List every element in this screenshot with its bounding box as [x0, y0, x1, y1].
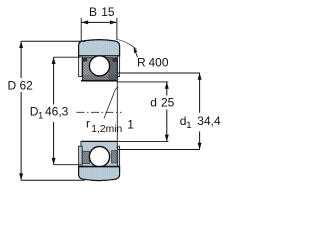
- inner ring band shading top section: [83, 75, 118, 82]
- svg-text:D: D: [8, 79, 17, 93]
- svg-text:1: 1: [127, 118, 134, 132]
- svg-text:d: d: [150, 96, 157, 110]
- svg-text:1: 1: [186, 120, 191, 131]
- dimension d1: dimension line with arrows: [199, 73, 201, 113]
- dimension D1: dimension line with arrows: [53, 57, 55, 104]
- dimension d: extension lines: [117, 81, 168, 83]
- bore edge line top section: [81, 80, 117, 82]
- shield lip right bottom section: [117, 146, 119, 167]
- svg-text:1,2min: 1,2min: [91, 124, 122, 135]
- svg-text:25: 25: [161, 96, 175, 110]
- outer ring ID line bottom section: [79, 166, 120, 168]
- centerline (axis): [77, 111, 122, 113]
- dimension D1: extension lines: [54, 56, 81, 58]
- R400 leader arrow: [134, 47, 138, 53]
- svg-text:46,3: 46,3: [45, 105, 69, 119]
- outer ring top section (crowned OD): [79, 40, 120, 56]
- inner ring bottom section: [81, 141, 117, 167]
- svg-text:r: r: [86, 117, 90, 131]
- shield lip left bottom section: [79, 146, 83, 167]
- svg-text:R: R: [137, 56, 146, 70]
- leader line r1,2min: [104, 87, 118, 119]
- outer ring ID line top section: [79, 55, 120, 57]
- inner ring face / d extension vertical line: [116, 58, 118, 164]
- svg-text:B: B: [89, 5, 97, 19]
- svg-text:62: 62: [20, 79, 34, 93]
- dimension d1: extension lines: [118, 72, 200, 74]
- cage flank right bottom section: [112, 151, 118, 163]
- svg-text:1: 1: [38, 111, 43, 122]
- inner ring face lines bottom section: [80, 141, 82, 167]
- dimension d: dimension line with arrows: [166, 82, 168, 96]
- inner ring + cage hatched block top section: [83, 58, 118, 81]
- dimension D: dimension line with arrows: [20, 41, 22, 78]
- cage cap right top: [113, 58, 118, 62]
- cage cap left top: [83, 58, 88, 62]
- shield lip left top section: [79, 56, 83, 77]
- R400 crown arc extension: [116, 39, 137, 49]
- cage darker right side top section: [109, 58, 118, 81]
- cage flank left bottom section: [82, 151, 89, 163]
- ball bottom section: [89, 147, 109, 167]
- dimension D: extension lines: [21, 40, 85, 42]
- ball top section: [89, 56, 109, 76]
- shield lip right top section: [117, 56, 119, 77]
- dimension B: extension lines: [80, 18, 82, 41]
- bore edge line bottom section: [81, 140, 117, 142]
- outer ring bottom section (crowned OD): [79, 166, 120, 180]
- dimension B: dimension line with arrows: [81, 21, 116, 23]
- svg-text:400: 400: [149, 56, 169, 70]
- svg-text:15: 15: [101, 5, 115, 19]
- svg-text:34,4: 34,4: [197, 114, 221, 128]
